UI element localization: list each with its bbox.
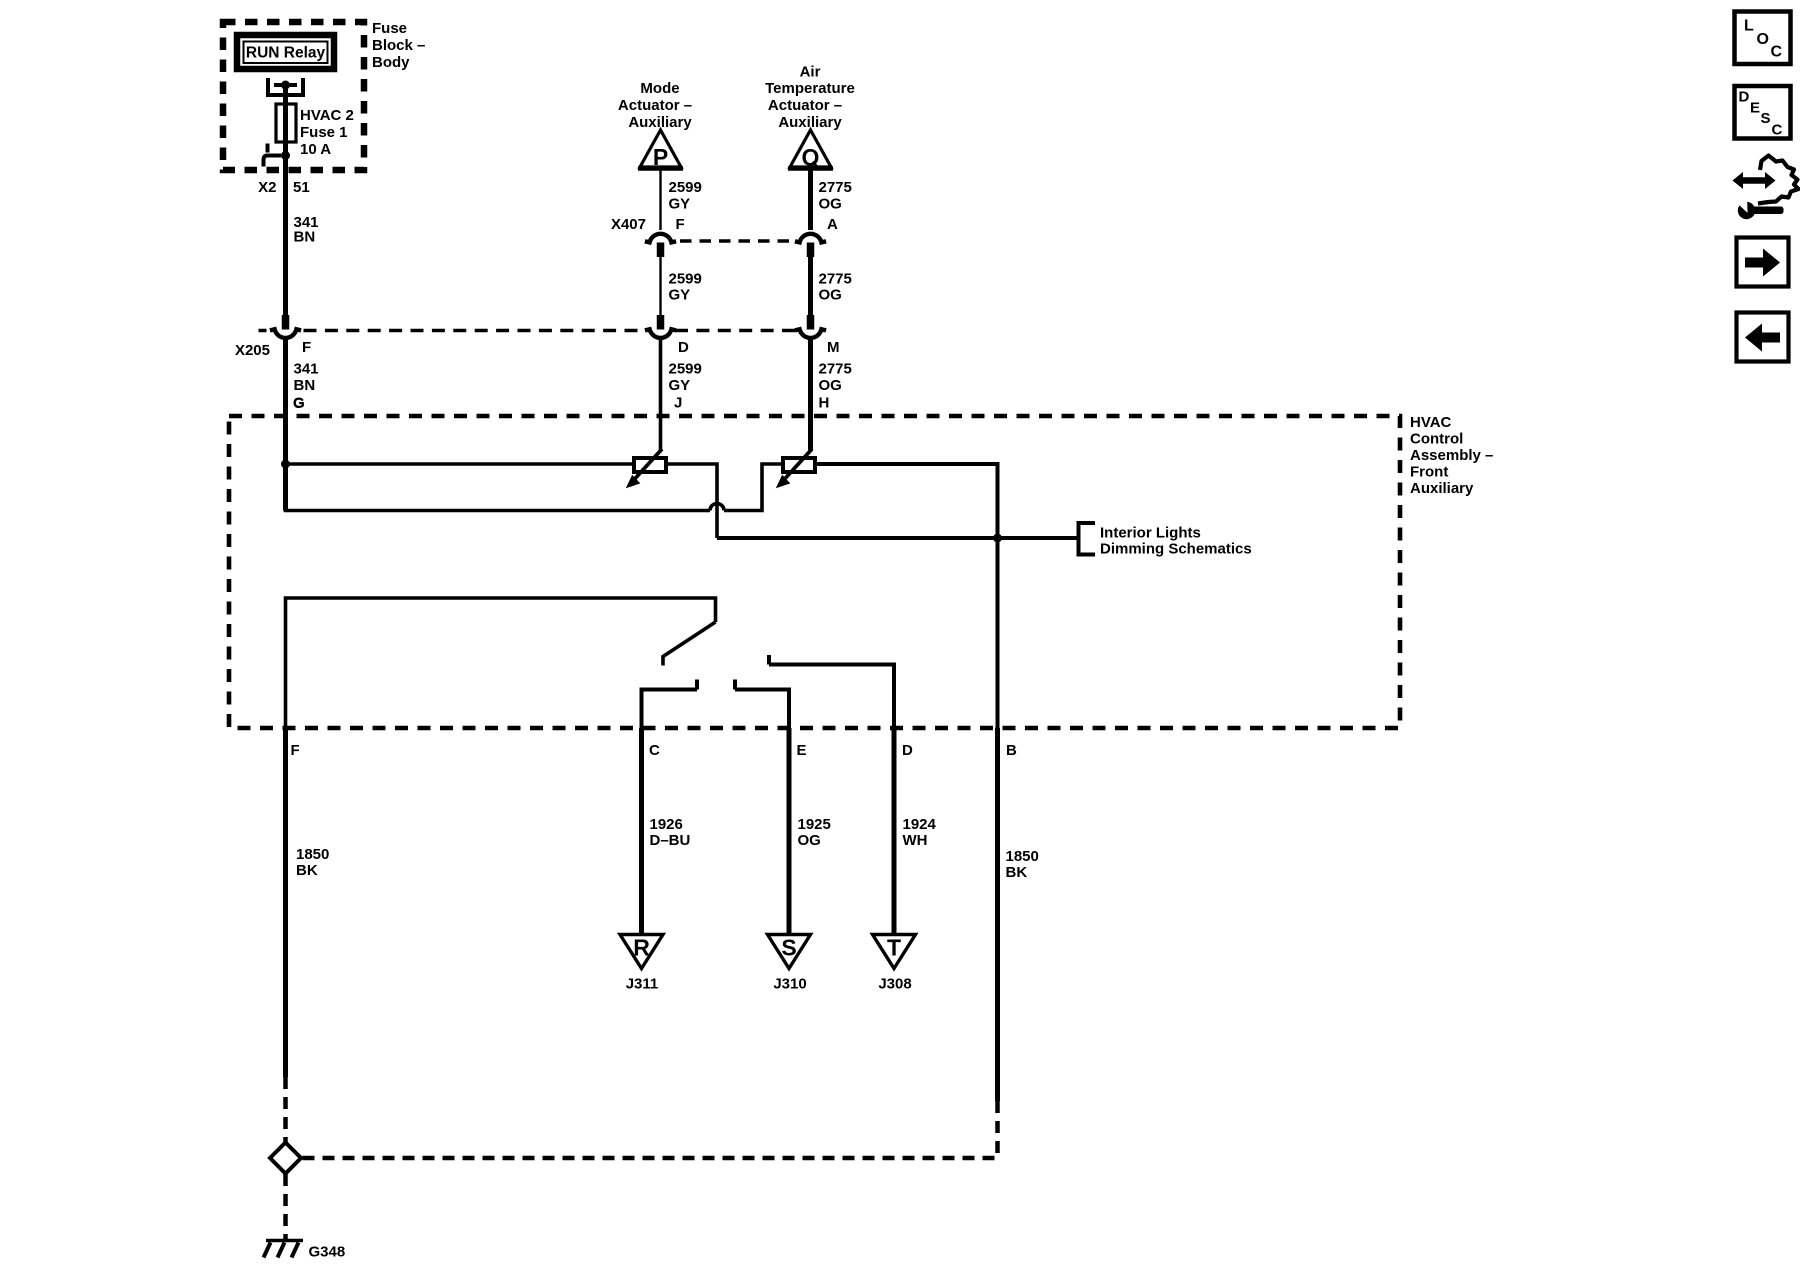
svg-text:E: E	[1750, 100, 1760, 117]
wire 2775 OG middle	[808, 257, 813, 315]
wire pot1 to corner	[666, 464, 717, 538]
wire cap below X407 F	[657, 243, 665, 258]
svg-text:341: 341	[294, 361, 319, 378]
svg-text:51: 51	[293, 179, 310, 196]
connector X407 pin A arch	[795, 234, 826, 243]
connector X205 pin D cup	[645, 329, 676, 338]
svg-text:Control: Control	[1410, 431, 1463, 448]
svg-text:2599: 2599	[669, 271, 702, 288]
svg-text:H: H	[819, 395, 830, 412]
wire cap below X407 A	[807, 243, 815, 258]
wire cap above X205 M	[807, 315, 815, 330]
icon button DESC	[1735, 86, 1791, 139]
icon button next arrow	[1737, 238, 1789, 287]
wire cap above X205 F	[282, 315, 290, 330]
svg-text:Fuse: Fuse	[372, 20, 407, 37]
svg-text:J310: J310	[773, 976, 806, 993]
svg-text:X407: X407	[611, 216, 646, 233]
wire 1850 BK left	[283, 728, 288, 1077]
switch blade	[663, 622, 716, 666]
svg-text:J308: J308	[878, 976, 911, 993]
icon button LOC	[1735, 12, 1791, 65]
fuse block body dashed box	[223, 22, 364, 170]
dashed ground run left	[283, 1077, 288, 1142]
X205 dashed connector row	[259, 329, 797, 333]
svg-text:BK: BK	[1006, 864, 1028, 881]
fuse F1 HVAC 2 10A	[276, 104, 296, 142]
interior lights bracket	[1079, 523, 1096, 555]
svg-text:F: F	[302, 339, 311, 356]
svg-text:1924: 1924	[903, 816, 937, 833]
svg-text:WH: WH	[903, 832, 928, 849]
svg-text:Air: Air	[800, 64, 821, 81]
wire 1926 D-BU	[639, 728, 644, 934]
svg-text:Block –: Block –	[372, 37, 425, 54]
svg-text:Assembly –: Assembly –	[1410, 447, 1493, 464]
svg-text:1925: 1925	[798, 816, 831, 833]
connector X205 pin M cup	[795, 329, 826, 338]
wire 2775 OG into box	[808, 339, 813, 451]
svg-text:J311: J311	[626, 976, 659, 993]
svg-text:F: F	[291, 742, 300, 759]
svg-text:T: T	[887, 935, 901, 961]
svg-text:Front: Front	[1410, 464, 1448, 481]
svg-text:Auxiliary: Auxiliary	[1410, 480, 1474, 497]
svg-text:2599: 2599	[669, 361, 702, 378]
terminal hook at fuse block exit	[264, 144, 282, 167]
svg-text:L: L	[1744, 18, 1754, 35]
svg-text:D: D	[902, 742, 913, 759]
splice diamond	[270, 1143, 301, 1174]
wire to interior lights	[717, 536, 1079, 540]
X407 dashed row	[680, 239, 792, 242]
wire 341 BN into HVAC box	[283, 339, 288, 511]
switch contact E	[735, 680, 789, 729]
svg-text:D: D	[1739, 89, 1750, 106]
svg-text:F: F	[676, 216, 685, 233]
svg-text:M: M	[827, 339, 840, 356]
svg-text:RUN Relay: RUN Relay	[246, 45, 326, 62]
svg-text:2775: 2775	[819, 361, 852, 378]
svg-text:X205: X205	[235, 342, 270, 359]
svg-text:Actuator –: Actuator –	[768, 97, 842, 114]
svg-text:GY: GY	[669, 377, 691, 394]
junction dot relay pin	[281, 81, 290, 90]
junction dot below fuse	[281, 151, 290, 160]
wire cap above X205 D	[657, 315, 665, 330]
svg-text:R: R	[633, 935, 650, 961]
svg-text:2599: 2599	[669, 179, 702, 196]
svg-text:HVAC: HVAC	[1410, 414, 1452, 431]
svg-text:Interior Lights: Interior Lights	[1100, 525, 1201, 542]
off-page triangle P	[640, 130, 681, 167]
wire top horizontal to pot 1	[286, 462, 635, 466]
svg-text:OG: OG	[819, 196, 842, 213]
HVAC control assembly dashed box	[229, 416, 1400, 728]
svg-text:C: C	[649, 742, 660, 759]
svg-text:10 A: 10 A	[300, 141, 331, 158]
wire relay to fuse	[283, 85, 288, 156]
wire 1850 BK right	[995, 728, 1000, 1101]
junction dot G node	[281, 460, 290, 469]
junction dot B node	[993, 534, 1002, 543]
svg-text:B: B	[1006, 742, 1017, 759]
wire 1924 WH	[892, 728, 897, 934]
svg-text:OG: OG	[819, 377, 842, 394]
svg-text:S: S	[781, 935, 796, 961]
svg-text:2775: 2775	[819, 179, 852, 196]
ground G348	[264, 1241, 304, 1258]
wire pot2 to B branch	[815, 464, 998, 728]
wire 2599 GY middle	[659, 257, 661, 315]
svg-text:GY: GY	[669, 196, 691, 213]
wire second horizontal with hop	[286, 464, 784, 511]
dashed below diamond	[283, 1174, 288, 1240]
svg-text:BN: BN	[294, 229, 316, 246]
svg-text:Mode: Mode	[640, 80, 679, 97]
svg-text:OG: OG	[798, 832, 821, 849]
svg-text:BK: BK	[296, 862, 318, 879]
switch contact D	[769, 655, 894, 728]
svg-text:Temperature: Temperature	[765, 80, 855, 97]
svg-text:OG: OG	[819, 287, 842, 304]
connector X205 pin F cup	[270, 329, 301, 338]
svg-text:E: E	[797, 742, 807, 759]
svg-text:1850: 1850	[296, 846, 329, 863]
svg-text:1926: 1926	[650, 816, 683, 833]
svg-text:1850: 1850	[1006, 848, 1039, 865]
off-page triangle Q	[790, 130, 831, 167]
svg-text:Dimming Schematics: Dimming Schematics	[1100, 541, 1252, 558]
svg-text:GY: GY	[669, 287, 691, 304]
svg-text:S: S	[1761, 110, 1771, 127]
svg-text:Body: Body	[372, 54, 410, 71]
dashed ground run right	[302, 1101, 998, 1158]
svg-text:D: D	[678, 339, 689, 356]
wire 2599 GY upper	[659, 168, 661, 230]
svg-text:Fuse 1: Fuse 1	[300, 124, 348, 141]
splice triangle S	[768, 935, 811, 969]
relay K RUN Relay box	[237, 35, 334, 69]
svg-text:O: O	[1757, 31, 1769, 48]
relay pin T-bar	[274, 83, 297, 87]
svg-text:P: P	[653, 144, 668, 170]
svg-text:HVAC 2: HVAC 2	[300, 107, 354, 124]
svg-text:BN: BN	[294, 377, 316, 394]
icon interactive arrows and wrench	[1733, 156, 1799, 220]
switch feed wire	[286, 598, 716, 728]
icon button back arrow	[1737, 313, 1789, 362]
splice triangle T	[873, 935, 916, 969]
svg-text:G: G	[293, 395, 305, 412]
wire 2599 GY into box	[659, 339, 663, 451]
wire 2775 OG upper	[808, 168, 813, 230]
svg-text:C: C	[1772, 122, 1783, 139]
potentiometer 2 air temp	[776, 449, 815, 488]
potentiometer 1 mode	[626, 449, 666, 488]
wire 341 BN vertical	[283, 156, 288, 317]
svg-text:X2: X2	[258, 179, 276, 196]
wire 1925 OG	[787, 728, 792, 934]
svg-text:Actuator –: Actuator –	[618, 97, 692, 114]
svg-text:2775: 2775	[819, 271, 852, 288]
switch contact C	[642, 680, 698, 729]
connector X407 pin F arch	[645, 234, 676, 243]
relay pin socket bracket	[268, 78, 303, 95]
svg-text:A: A	[827, 216, 838, 233]
splice triangle R	[620, 935, 663, 969]
svg-text:J: J	[674, 395, 682, 412]
svg-text:D–BU: D–BU	[650, 832, 691, 849]
svg-text:G348: G348	[309, 1244, 346, 1261]
svg-text:C: C	[1771, 44, 1783, 61]
